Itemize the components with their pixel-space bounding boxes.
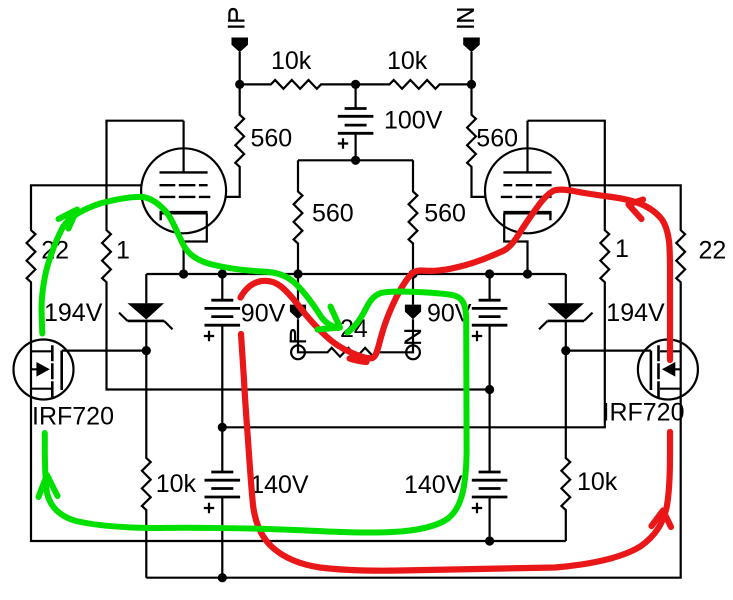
- svg-text:10k: 10k: [271, 47, 312, 75]
- svg-text:10k: 10k: [156, 470, 197, 498]
- svg-text:10k: 10k: [577, 468, 618, 496]
- svg-text:IRF720: IRF720: [603, 399, 685, 427]
- svg-text:560: 560: [251, 125, 293, 153]
- svg-text:1: 1: [116, 236, 130, 264]
- svg-text:90V: 90V: [241, 299, 286, 327]
- svg-text:140V: 140V: [404, 471, 463, 499]
- svg-text:194V: 194V: [44, 299, 103, 327]
- svg-text:100V: 100V: [384, 107, 443, 135]
- svg-text:560: 560: [312, 199, 354, 227]
- svg-text:1: 1: [615, 235, 629, 263]
- svg-text:560: 560: [476, 125, 518, 153]
- svg-text:IRF720: IRF720: [32, 403, 114, 431]
- svg-text:140V: 140V: [250, 471, 309, 499]
- svg-text:560: 560: [424, 199, 466, 227]
- svg-text:10k: 10k: [387, 47, 428, 75]
- svg-text:194V: 194V: [606, 299, 665, 327]
- svg-text:22: 22: [699, 236, 727, 264]
